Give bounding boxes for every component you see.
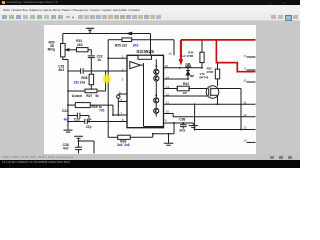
- diode D11: [186, 68, 190, 79]
- svg-text:15к: 15к: [74, 80, 80, 84]
- label R28: [80, 76, 88, 84]
- label C38: [179, 118, 185, 133]
- label D11: [190, 74, 194, 78]
- wire red V+: [179, 39, 256, 72]
- label C22: [97, 54, 103, 61]
- label 7k5 blue: [99, 109, 104, 113]
- wire: [67, 60, 69, 129]
- svg-text:16: 16: [168, 52, 172, 56]
- transistor VT2 MOSFET: [164, 86, 219, 105]
- wire: [150, 34, 152, 56]
- svg-text:14: 14: [166, 75, 170, 79]
- svg-text:5к: 5к: [95, 94, 99, 98]
- label C24: [62, 109, 68, 113]
- status bar: [0, 154, 300, 160]
- wire pin1: [108, 57, 127, 59]
- label C33: [74, 117, 92, 129]
- wire: [68, 70, 127, 72]
- svg-text:470R: 470R: [207, 70, 213, 74]
- svg-text:9: 9: [244, 67, 246, 71]
- label 2k6 blue top: [133, 43, 139, 47]
- svg-text:IRF740: IRF740: [199, 75, 208, 79]
- resistor R32: [164, 86, 242, 91]
- svg-text:+: +: [90, 117, 92, 121]
- svg-text:C26: C26: [185, 62, 190, 66]
- label R34: [187, 50, 194, 58]
- svg-text:3n3: 3n3: [179, 129, 185, 133]
- black bottom bar: [0, 160, 300, 168]
- svg-text:1W: 1W: [183, 91, 187, 95]
- ground: [189, 123, 198, 128]
- node B: [67, 70, 106, 72]
- label 1k2 blue: [181, 54, 186, 58]
- ground: [86, 28, 94, 33]
- svg-text:C33: C33: [74, 118, 80, 122]
- svg-text:C38: C38: [179, 118, 185, 122]
- svg-text:13: 13: [243, 126, 247, 130]
- wire pin16: [173, 40, 175, 56]
- wire pin14: [164, 78, 189, 80]
- svg-text:2к2: 2к2: [117, 143, 122, 147]
- svg-text:15: 15: [165, 64, 169, 68]
- label R33: [207, 67, 213, 74]
- transistor Q2: [154, 74, 159, 97]
- svg-text:11: 11: [166, 100, 169, 104]
- wire: [153, 123, 174, 134]
- capacitor C28: [75, 140, 82, 153]
- svg-text:VT2: VT2: [200, 72, 205, 76]
- label R31: [76, 39, 83, 47]
- ground: [64, 128, 73, 132]
- node highlight: [102, 74, 111, 83]
- svg-text:4н7: 4н7: [64, 117, 70, 121]
- resistor R36: [108, 133, 154, 140]
- svg-text:12: 12: [243, 113, 247, 117]
- wire: [194, 104, 196, 129]
- svg-text:4н7: 4н7: [63, 147, 69, 151]
- svg-text:SG3525: SG3525: [136, 49, 154, 55]
- resistor R34: [200, 39, 204, 68]
- svg-text:ДП: ДП: [190, 74, 194, 78]
- resistor R31: [77, 48, 92, 55]
- ground: [164, 133, 174, 145]
- svg-text:10: 10: [166, 110, 170, 114]
- capacitor C23: [81, 68, 84, 73]
- label 15k blue: [74, 80, 80, 84]
- svg-text:R35 2к2: R35 2к2: [115, 43, 127, 47]
- op-amp U1 IC SG3525: [127, 55, 164, 127]
- capacitor C24: [67, 113, 89, 122]
- svg-text:13: 13: [166, 85, 170, 89]
- wire pin10: [164, 114, 256, 117]
- label C28: [63, 143, 69, 151]
- wire feedback net: [107, 40, 109, 138]
- svg-text:47µ: 47µ: [86, 125, 92, 129]
- svg-text:3: 3: [122, 77, 124, 81]
- node A: [127, 32, 132, 34]
- resistor R35: [108, 38, 174, 42]
- capacitor C22: [88, 56, 95, 71]
- svg-text:3н3: 3н3: [58, 68, 64, 72]
- transistor Q1: [154, 59, 159, 74]
- label R30: [48, 41, 55, 52]
- potentiometer R30: [61, 34, 77, 60]
- connector numbers right edge: [243, 54, 247, 142]
- svg-text:14: 14: [243, 138, 247, 142]
- svg-text:8: 8: [244, 54, 246, 58]
- svg-text:470R: 470R: [187, 54, 194, 58]
- wire stub 10: [247, 81, 256, 83]
- wire pin6: [118, 101, 127, 103]
- label 2k6 blue bottom: [124, 143, 129, 147]
- wire stub 9: [247, 69, 256, 71]
- wire: [63, 33, 151, 35]
- resistor R27: [67, 71, 106, 93]
- label R35: [115, 43, 127, 47]
- resistor R33: [215, 63, 219, 87]
- label R32: [183, 82, 190, 95]
- transistor Q3: [154, 94, 159, 103]
- svg-text:10: 10: [243, 78, 247, 82]
- svg-text:2К6: 2К6: [133, 43, 139, 47]
- wire: [194, 89, 256, 131]
- svg-text:U=вкл: U=вкл: [72, 94, 82, 98]
- capacitor C38: [180, 123, 187, 129]
- wire: [79, 141, 95, 154]
- label R36: [117, 139, 126, 147]
- transistor Q4: [154, 103, 159, 117]
- content background + paper: [0, 21, 300, 154]
- menu bar: [0, 5, 300, 13]
- wire pin15: [164, 67, 203, 69]
- svg-text:7к5: 7к5: [99, 109, 104, 113]
- wire pin11: [164, 103, 256, 105]
- svg-text:1к2: 1к2: [181, 54, 186, 58]
- wire stub 14: [247, 141, 256, 143]
- svg-text:1н: 1н: [97, 58, 101, 62]
- svg-text:МОц: МОц: [48, 48, 55, 52]
- capacitor C33: [67, 119, 127, 124]
- wire pin9: [164, 122, 194, 124]
- svg-text:R27: R27: [86, 94, 92, 98]
- label VT2: [199, 72, 208, 79]
- svg-text:2к6: 2к6: [124, 143, 129, 147]
- pin 5 circle terminal: [117, 94, 127, 115]
- label R29: [92, 105, 103, 109]
- pin numbers right: [165, 52, 172, 123]
- svg-text:10к: 10к: [80, 80, 86, 84]
- svg-text:R32: R32: [183, 82, 189, 86]
- label C26: [185, 62, 190, 66]
- svg-text:12: 12: [166, 92, 170, 96]
- toolbar: [0, 13, 300, 21]
- title bar: [0, 0, 300, 5]
- svg-text:C24: C24: [62, 109, 68, 113]
- label SG3525: [136, 49, 154, 55]
- label R27: [72, 94, 99, 98]
- capacitor C26: [185, 64, 191, 68]
- svg-text:9: 9: [165, 119, 167, 123]
- wire stub 8: [247, 56, 256, 58]
- resistor R28: [89, 71, 94, 90]
- pin numbers left: [119, 55, 124, 122]
- wire pin7: [112, 114, 127, 116]
- label C23: [58, 65, 64, 72]
- resistor R29: [67, 103, 113, 115]
- svg-text:2К2: 2К2: [77, 43, 83, 47]
- svg-text:11: 11: [243, 100, 246, 104]
- label 4n7 blue: [64, 117, 70, 121]
- ground: [74, 136, 83, 141]
